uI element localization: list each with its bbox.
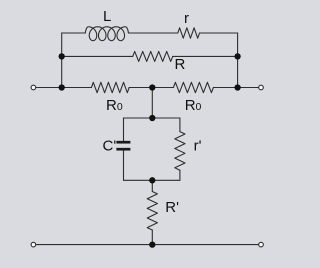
wire middle rail right segment xyxy=(173,55,238,57)
wire R-prime top lead xyxy=(151,180,153,191)
node at left vertical / middle rail xyxy=(59,53,65,59)
svg-text:R': R' xyxy=(165,199,179,216)
svg-text:C': C' xyxy=(103,138,117,155)
capacitor C-prime plates xyxy=(116,142,130,149)
wire center vertical to box xyxy=(151,88,153,119)
node at left vertical / main rail xyxy=(59,84,65,90)
node at right vertical / middle rail xyxy=(234,53,240,59)
inductor L xyxy=(85,27,128,41)
svg-text:R0: R0 xyxy=(185,97,202,114)
svg-text:L: L xyxy=(103,8,111,25)
wire middle rail left segment xyxy=(62,55,133,57)
wire capacitor top lead xyxy=(123,118,125,141)
wire main rail left segment xyxy=(33,87,91,89)
terminal bottom-left xyxy=(31,242,36,247)
resistor R-prime xyxy=(147,192,157,231)
terminal bottom-right xyxy=(259,242,264,247)
wire bottom rail xyxy=(33,244,261,246)
wire top rail right segment xyxy=(200,32,238,34)
wire top rail left segment xyxy=(62,32,86,34)
resistor R0 left xyxy=(91,82,129,92)
resistor R xyxy=(133,51,173,61)
node at box bottom xyxy=(149,177,155,183)
svg-text:R: R xyxy=(175,56,186,73)
wire r-prime top lead xyxy=(179,118,181,132)
node at bottom rail xyxy=(149,241,155,247)
wire main rail right segment xyxy=(213,87,261,89)
wire R-prime bottom lead xyxy=(151,230,153,245)
node at box top xyxy=(149,115,155,121)
svg-text:r: r xyxy=(184,10,189,27)
node at right vertical / main rail xyxy=(234,84,240,90)
wire top rail middle segment xyxy=(128,32,177,34)
terminal top-left xyxy=(31,85,36,90)
svg-text:r': r' xyxy=(194,137,202,154)
wire main rail center segment xyxy=(129,87,173,89)
svg-text:R0: R0 xyxy=(106,97,123,114)
wire box top xyxy=(124,117,180,119)
wire capacitor bottom lead xyxy=(123,150,125,180)
node at main rail center xyxy=(149,84,155,90)
wire box bottom xyxy=(124,179,180,181)
wire left vertical xyxy=(61,33,63,88)
resistor r xyxy=(178,28,200,38)
resistor R0 right xyxy=(173,82,213,92)
wire r-prime bottom lead xyxy=(179,170,181,180)
terminal top-right xyxy=(259,85,264,90)
wire right vertical xyxy=(237,33,239,88)
resistor r-prime xyxy=(175,132,185,171)
